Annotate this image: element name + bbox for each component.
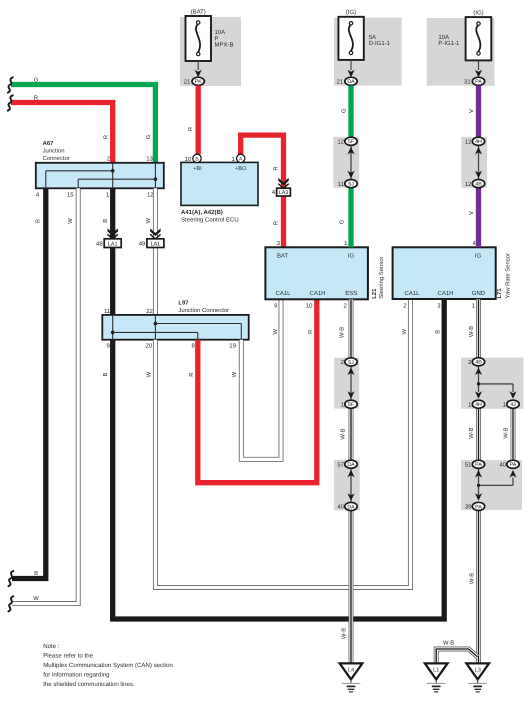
ECU A41(A) A42(B) Steering Control ECU (181, 162, 258, 205)
svg-text:5J: 5J (348, 182, 354, 188)
svg-text:PA: PA (475, 462, 482, 468)
break symbol G wire (8, 77, 13, 92)
arrow up PA51 (475, 470, 482, 478)
svg-text:10: 10 (185, 156, 192, 163)
svg-text:Yaw Rate Sensor: Yaw Rate Sensor (504, 253, 511, 298)
svg-text:PK: PK (195, 79, 203, 85)
L97 internal branch to pin 19 (155, 323, 241, 325)
node pin22/pin20 (154, 322, 158, 326)
ground L1 (425, 663, 448, 679)
svg-text:57: 57 (337, 461, 344, 468)
break symbol R wire (8, 95, 13, 110)
arrow down 5F (347, 391, 354, 399)
svg-text:R: R (274, 221, 280, 225)
svg-text:L3: L3 (475, 668, 481, 674)
svg-text:R: R (103, 135, 109, 139)
svg-text:W: W (33, 596, 39, 602)
arrow down PA39 (475, 493, 482, 501)
A67 internal branch to pin 4 (46, 170, 113, 172)
in-line connector 4B/4H/4J (461, 358, 524, 409)
svg-text:P: P (215, 35, 219, 42)
arrow up PA40 (509, 470, 516, 478)
svg-text:5F: 5F (348, 139, 355, 145)
svg-text:A67: A67 (43, 140, 55, 147)
svg-text:3: 3 (277, 240, 281, 247)
svg-text:Junction: Junction (43, 148, 65, 155)
svg-text:W-B: W-B (469, 326, 475, 337)
svg-text:R: R (308, 330, 314, 334)
svg-text:1: 1 (106, 191, 110, 198)
svg-text:CA1L: CA1L (405, 290, 421, 297)
svg-text:31: 31 (464, 79, 471, 86)
svg-text:CA1H: CA1H (438, 290, 454, 297)
svg-text:ESS: ESS (345, 290, 357, 297)
connector oval 4H pin 1 (472, 400, 484, 408)
svg-text:D-IG1-1: D-IG1-1 (369, 40, 391, 47)
svg-text:21: 21 (184, 79, 191, 86)
svg-text:48: 48 (96, 241, 103, 248)
svg-text:B: B (34, 571, 38, 577)
connector oval 5J pin 11 (345, 180, 357, 188)
connector oval 5F pin 1 (345, 400, 357, 408)
wire W-B branch 4J to PA 40 (511, 404, 516, 464)
svg-text:4: 4 (272, 189, 276, 196)
svg-text:for information regarding: for information regarding (43, 671, 109, 678)
svg-text:(BAT): (BAT) (191, 9, 206, 16)
connector oval DA pin 40 (345, 502, 357, 510)
svg-text:W-B: W-B (341, 428, 347, 439)
connector oval DA pin 57 (345, 460, 357, 468)
svg-text:CA1L: CA1L (276, 290, 292, 297)
svg-text:V: V (469, 109, 475, 113)
svg-text:DA: DA (347, 504, 355, 510)
arrow down DA (347, 493, 354, 501)
connector arrow LA3 (278, 178, 288, 186)
svg-text:PA: PA (475, 79, 482, 85)
wire B L97 pin 9 to yaw rate sensor CA1H (113, 299, 445, 619)
svg-text:L4: L4 (348, 668, 354, 674)
connector oval 5J pin 2 (345, 358, 357, 366)
svg-text:IG: IG (475, 253, 482, 260)
svg-text:8: 8 (192, 343, 196, 350)
svg-text:2: 2 (403, 303, 407, 310)
svg-text:PA: PA (510, 462, 517, 468)
in-line connector LA1 pin 48 (104, 239, 121, 248)
svg-text:(IG): (IG) (473, 10, 483, 17)
svg-text:R: R (189, 373, 195, 377)
L97 internal bus pin22-pin20 (154, 315, 156, 340)
arrow up 5J (347, 368, 354, 376)
A67 internal branch to pin 15 (78, 178, 155, 180)
L97 internal branch to pin 8 (113, 331, 198, 333)
svg-text:L97: L97 (178, 300, 189, 307)
svg-text:W-B: W-B (469, 427, 475, 438)
svg-text:+BO: +BO (235, 166, 247, 172)
ground L4 (340, 663, 363, 679)
svg-text:22: 22 (146, 308, 153, 315)
in-line connector LA3 pin 4 (277, 188, 291, 196)
svg-text:V: V (469, 211, 475, 215)
fuse (IG) 5A D-IG1-1 (334, 18, 402, 86)
svg-text:20: 20 (146, 343, 153, 350)
in-line connector pair 5J/5F on ESS wire (334, 358, 359, 409)
svg-text:B: B (103, 219, 109, 223)
wire R from left break to A67 pin 2 (11, 103, 113, 163)
svg-text:4H: 4H (475, 402, 482, 408)
wire G fuse DA to steering sensor IG (348, 86, 353, 248)
wire B A67 pin 4 to left break (12, 188, 46, 578)
wire W-B yaw GND to grounds (476, 299, 481, 664)
junction connector A67 (36, 163, 164, 189)
arrow up 4H (475, 147, 482, 155)
svg-text:39: 39 (465, 504, 472, 511)
L97 internal bus pin11-pin9 (112, 315, 114, 340)
svg-text:13: 13 (146, 156, 153, 163)
svg-text:the shielded communication lin: the shielded communication lines. (43, 681, 135, 688)
svg-text:10: 10 (306, 303, 313, 310)
svg-text:DA: DA (347, 79, 355, 85)
wire W L97 pin 20 to yaw rate sensor CA1L (155, 299, 410, 587)
node pin13/pin12 (154, 177, 158, 181)
svg-text:BAT: BAT (277, 253, 289, 260)
connector oval 4B pin 12 (472, 180, 484, 188)
svg-text:W-B: W-B (504, 427, 510, 438)
connector oval PA pin 40 (507, 460, 519, 468)
svg-text:2: 2 (343, 303, 347, 310)
svg-text:W-B: W-B (342, 628, 348, 639)
svg-text:5F: 5F (348, 402, 355, 408)
svg-text:Steering Control ECU: Steering Control ECU (181, 216, 239, 223)
svg-text:Connector: Connector (43, 155, 70, 162)
connector oval 4J pin 1 (507, 400, 519, 408)
svg-text:LA1: LA1 (151, 241, 161, 247)
svg-text:19: 19 (229, 343, 236, 350)
A67 internal bus pin2-pin1 (112, 163, 114, 189)
wire R ECU pin A via LA3 to steering sensor BAT (241, 135, 284, 247)
connector oval PA pin 39 (472, 502, 484, 510)
A67 internal bus pin13-pin12 (154, 163, 156, 189)
wire W-B branch to ground L1 (436, 649, 477, 664)
branch node from PA 40 (479, 484, 514, 486)
arrow up 4B (475, 368, 482, 376)
connector arrow LA1 left (108, 228, 118, 236)
svg-text:W: W (146, 218, 152, 224)
in-line connector pair 5F/5J on G wire (333, 137, 359, 188)
svg-text:10A: 10A (215, 29, 226, 36)
svg-text:L1: L1 (433, 668, 439, 674)
svg-text:4: 4 (36, 191, 40, 198)
ground L3 (466, 663, 489, 679)
svg-text:W: W (146, 371, 152, 377)
svg-text:1: 1 (472, 303, 476, 310)
svg-text:Note :: Note : (43, 643, 60, 650)
svg-text:15: 15 (67, 191, 74, 198)
svg-text:R: R (188, 127, 194, 131)
fuse (BAT) 10A P MPX-B (180, 17, 241, 86)
svg-text:W: W (273, 329, 279, 335)
fuse (IG) 10A P-IG1-1 (427, 18, 495, 86)
branch node to 4J (479, 383, 514, 385)
ECU pin circle A (1) (237, 154, 245, 162)
svg-text:Steering Sensor: Steering Sensor (378, 257, 385, 299)
wire W A67 pin 12 to L97 pin 22 (153, 188, 158, 315)
wire W A67 pin 15 to left break (12, 188, 78, 603)
arrow down 4J (509, 391, 516, 399)
svg-text:R: R (34, 96, 38, 102)
svg-text:DA: DA (347, 462, 355, 468)
arrow down 4H (475, 391, 482, 399)
svg-text:21: 21 (337, 79, 344, 86)
steering sensor L21 (265, 247, 368, 299)
svg-text:9: 9 (274, 303, 278, 310)
svg-text:W: W (68, 218, 74, 224)
svg-text:W-B: W-B (443, 641, 454, 647)
svg-text:L71: L71 (496, 288, 503, 299)
svg-text:40: 40 (499, 462, 506, 469)
in-line connector LA1 pin 49 (147, 239, 164, 248)
break symbol B wire (8, 571, 13, 586)
svg-text:11: 11 (338, 181, 345, 188)
arrow down 4B (475, 171, 482, 179)
node pin11/pin9 (111, 331, 115, 335)
wire W-B steering ESS to ground L4 (349, 299, 354, 664)
svg-text:51: 51 (465, 462, 472, 469)
svg-text:49: 49 (139, 241, 146, 248)
svg-text:5J: 5J (348, 360, 354, 366)
svg-text:3: 3 (437, 303, 441, 310)
svg-text:LA1: LA1 (108, 241, 118, 247)
svg-text:1: 1 (344, 240, 348, 247)
junction connector L97 (102, 315, 248, 340)
svg-text:G: G (340, 108, 347, 113)
svg-text:IG: IG (348, 253, 355, 260)
svg-text:G: G (34, 77, 39, 84)
connector oval 4B pin 2 (472, 358, 484, 366)
svg-text:L21: L21 (371, 288, 378, 299)
wire R L97 pin 8 to steering sensor CA1H (198, 299, 317, 482)
svg-text:W-B: W-B (469, 573, 475, 584)
yaw rate sensor L71 (393, 247, 496, 299)
wire V fuse PA to yaw rate sensor IG (476, 86, 481, 248)
svg-text:G: G (145, 134, 152, 139)
connector oval PA pin 51 (472, 460, 484, 468)
wire R fuse PK to ECU pin B (196, 86, 201, 155)
svg-text:Multiplex Communication System: Multiplex Communication System (CAN) sec… (43, 662, 173, 669)
svg-text:B: B (103, 373, 109, 377)
in-line connector pair DA on ESS wire (334, 460, 360, 511)
svg-text:W-B: W-B (340, 327, 346, 338)
svg-text:W: W (232, 371, 238, 377)
svg-text:4J: 4J (510, 402, 516, 408)
break symbol W wire (8, 596, 13, 611)
svg-text:12: 12 (465, 181, 472, 188)
svg-text:(IG): (IG) (346, 9, 356, 16)
svg-text:+BI: +BI (193, 166, 202, 172)
svg-text:Junction Connector: Junction Connector (178, 307, 229, 314)
svg-text:9: 9 (107, 343, 111, 350)
svg-text:GND: GND (472, 290, 486, 297)
wire B A67 pin 1 to L97 pin 11 (110, 188, 115, 315)
svg-text:40: 40 (337, 504, 344, 511)
arrow up DA (347, 470, 354, 478)
svg-text:R: R (274, 166, 280, 170)
wire W L97 pin 19 to steering sensor CA1L (241, 299, 281, 459)
in-line connector PA 51/40/39 (461, 460, 522, 510)
connector oval 5F pin 12 (345, 137, 357, 145)
svg-text:A41(A), A42(B): A41(A), A42(B) (181, 209, 223, 216)
arrow up 5F (347, 147, 354, 155)
svg-text:12: 12 (465, 139, 472, 146)
ECU pin circle B (10) (193, 154, 201, 162)
svg-text:4B: 4B (475, 182, 482, 188)
svg-text:B: B (435, 330, 441, 334)
svg-text:LA3: LA3 (279, 190, 289, 196)
svg-text:Please refer to the: Please refer to the (43, 652, 93, 659)
svg-text:W: W (402, 329, 408, 335)
arrow down 5J (347, 171, 354, 179)
connector arrow LA1 right (150, 228, 160, 236)
svg-text:G: G (339, 219, 346, 224)
svg-text:P-IG1-1: P-IG1-1 (438, 40, 460, 47)
svg-text:11: 11 (104, 308, 111, 315)
svg-text:CA1H: CA1H (310, 290, 326, 297)
wire G from left break to A67 pin 13 (11, 85, 155, 163)
svg-text:B: B (36, 219, 42, 223)
svg-text:MPX-B: MPX-B (215, 42, 234, 49)
svg-text:4B: 4B (475, 360, 482, 366)
svg-text:4H: 4H (475, 139, 482, 145)
in-line connector pair 4H/4B on V wire (461, 137, 487, 188)
connector oval 4H pin 12 (472, 137, 484, 145)
svg-text:PA: PA (475, 504, 482, 510)
node pin2/pin1 (111, 169, 115, 173)
svg-text:12: 12 (337, 139, 344, 146)
